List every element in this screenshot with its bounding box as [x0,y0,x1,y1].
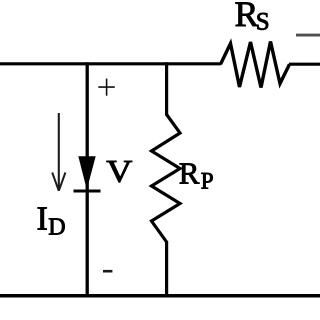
svg-text:V: V [106,155,132,190]
svg-text:P: P [201,169,214,194]
wire: top rail right segment [289,63,320,66]
wire: RP branch bottom vertical [165,241,168,297]
minus terminal label (top right) [296,34,320,37]
wire: top rail left segment [0,62,221,65]
label - (cathode polarity) [103,270,112,273]
label + (anode polarity) [98,79,115,96]
diode D1 [74,156,101,191]
resistor RP (shunt) [152,115,181,243]
wire: RP branch top vertical [165,62,168,115]
resistor RS (series) [221,42,290,88]
wire: bottom rail [0,294,320,298]
svg-text:R: R [179,156,200,191]
svg-text:D: D [48,215,65,241]
svg-text:S: S [256,9,270,36]
current arrow ID [52,113,65,191]
label RS [235,0,270,36]
label RP [179,156,214,194]
label ID [37,201,66,241]
svg-text:I: I [37,201,48,238]
wire: diode branch vertical [86,62,89,297]
